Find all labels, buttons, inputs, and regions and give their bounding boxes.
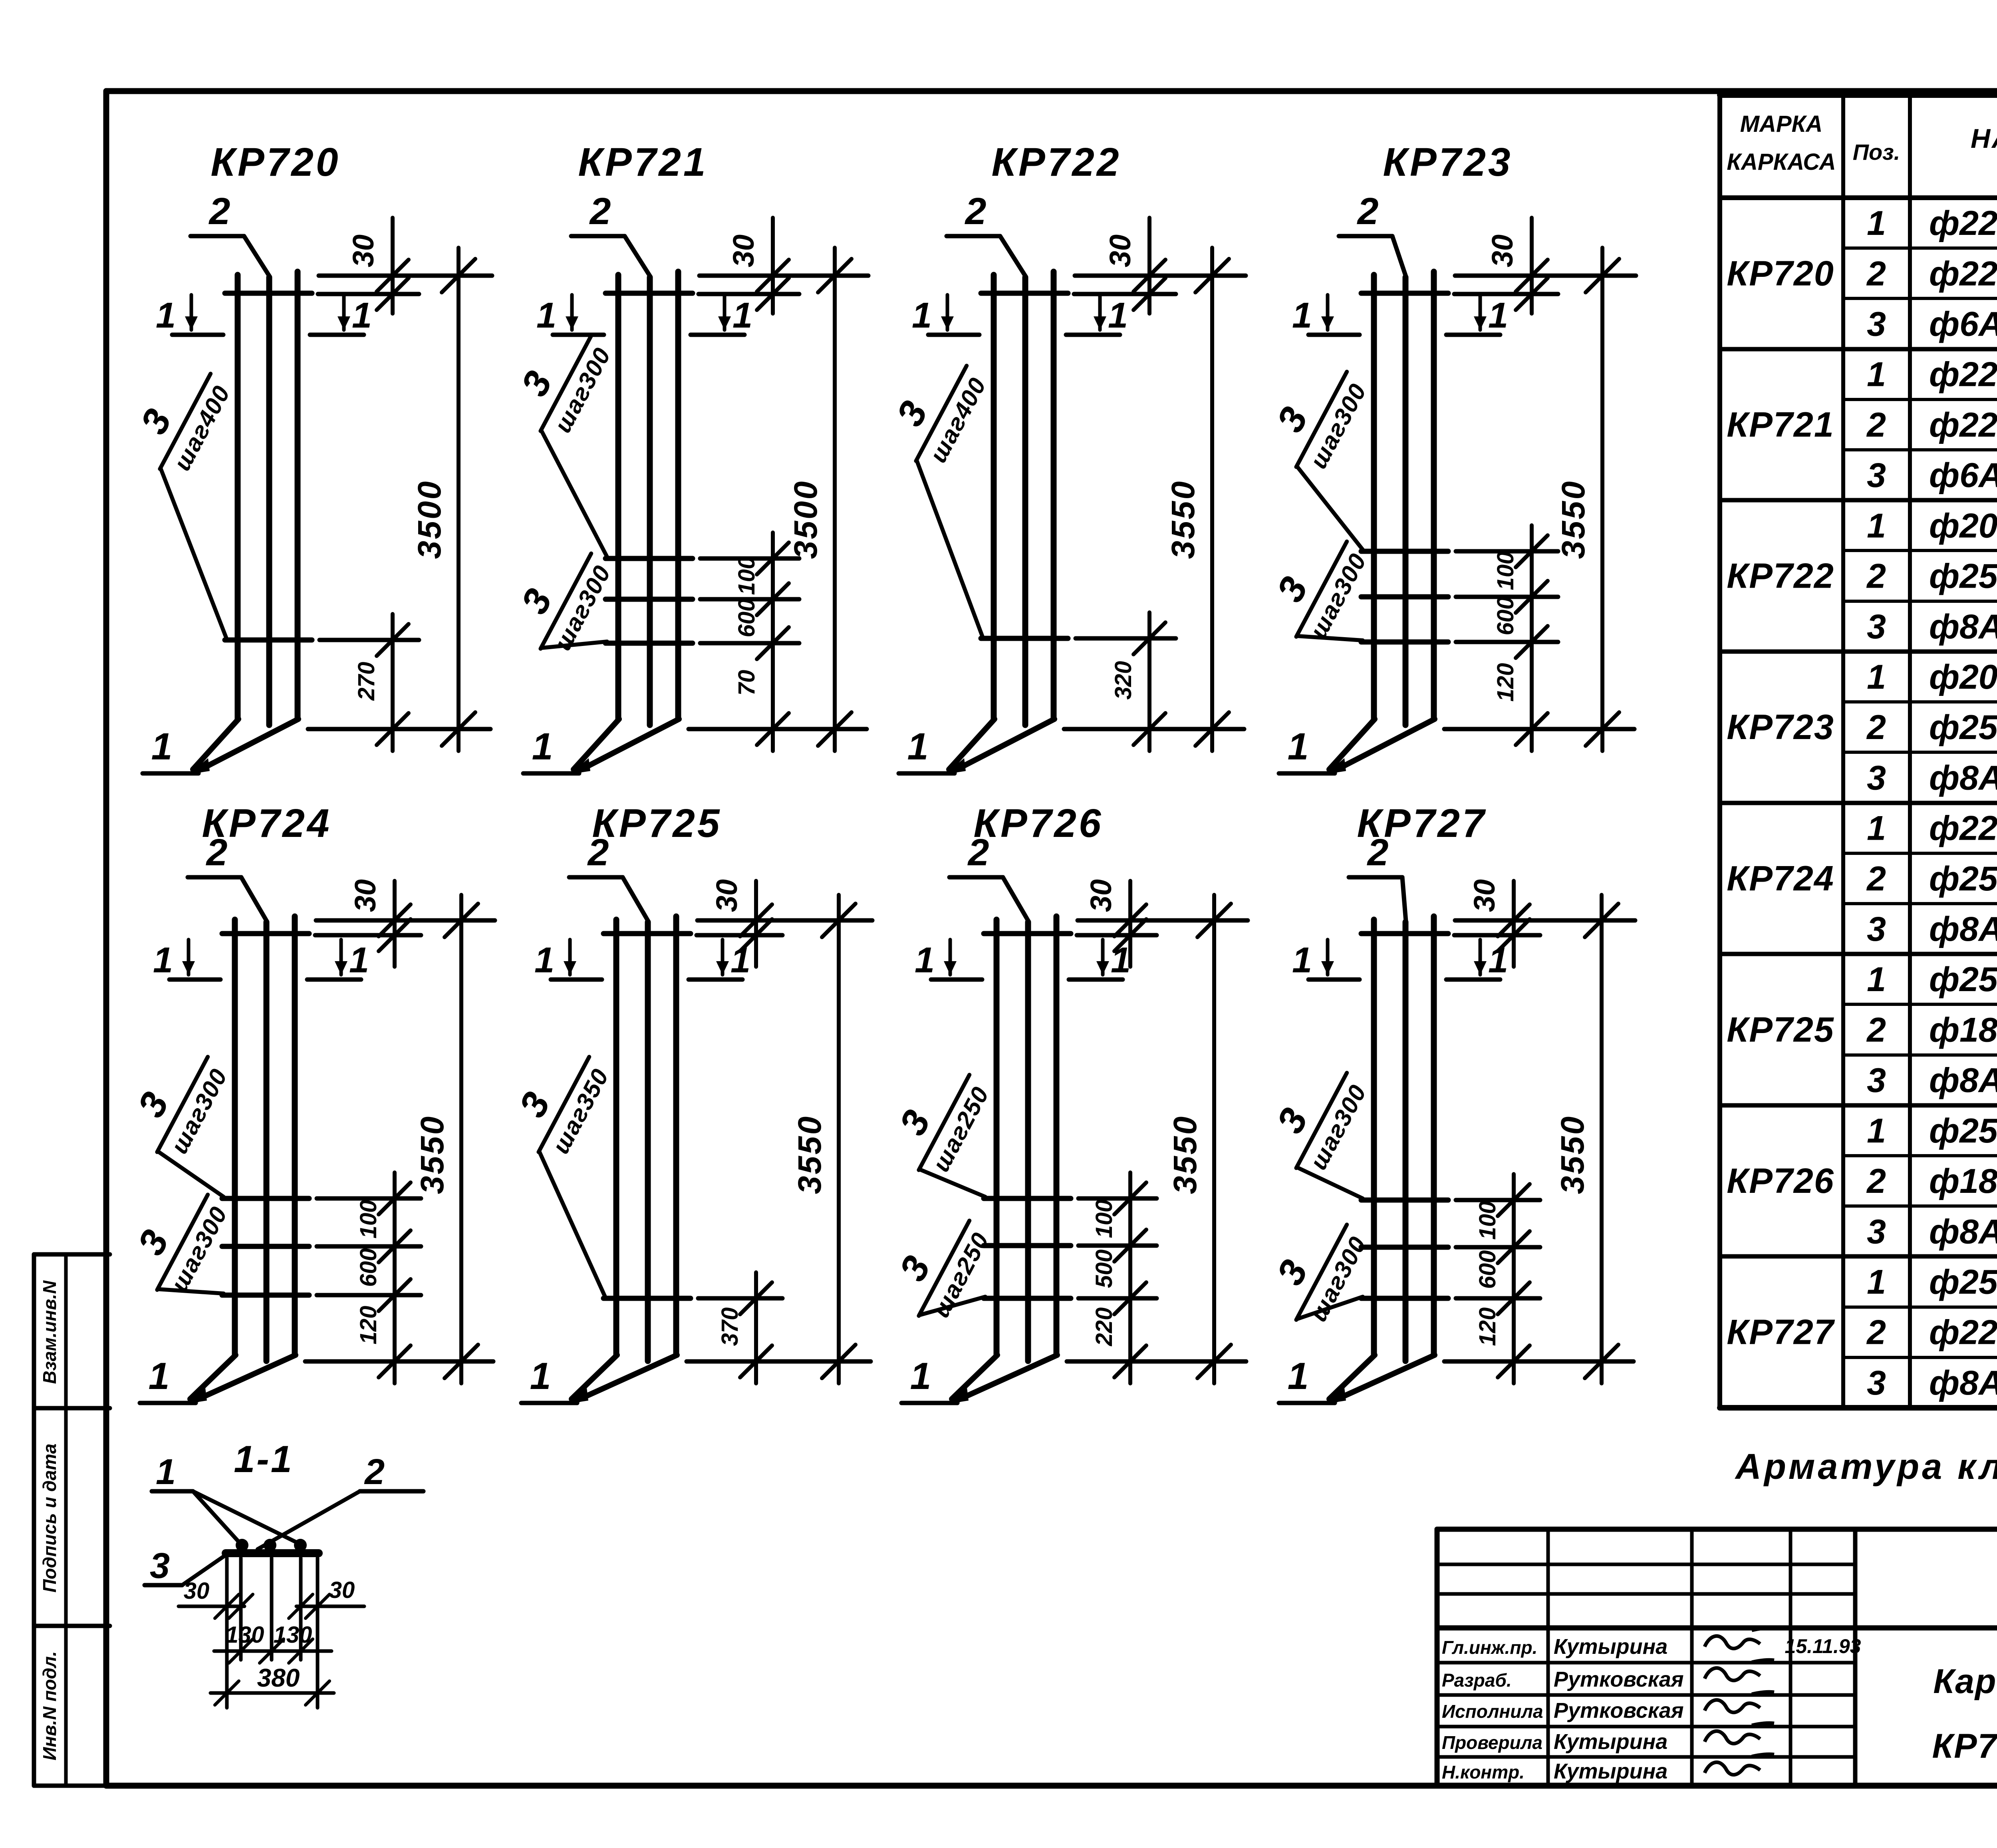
bar 2 middle longitudinal — [1403, 922, 1409, 1361]
svg-text:КР723: КР723 — [1383, 140, 1513, 185]
section cut mark 1 right — [1446, 333, 1500, 337]
bar 1 right longitudinal — [292, 916, 298, 1355]
svg-text:100: 100 — [1091, 1200, 1117, 1238]
section detail 1-1 — [145, 1438, 423, 1708]
bar 1 right longitudinal — [1431, 916, 1437, 1355]
leader label 3 шаг300 — [116, 1173, 235, 1305]
leader label 2 (top bar) — [1339, 234, 1392, 238]
svg-text:500: 500 — [1091, 1250, 1117, 1288]
svg-text:320: 320 — [1110, 661, 1136, 700]
svg-text:Подпись и дата: Подпись и дата — [39, 1444, 60, 1593]
svg-text:1: 1 — [1292, 940, 1312, 980]
svg-text:МАРКА: МАРКА — [1740, 111, 1822, 137]
specification table — [1720, 95, 1997, 1408]
svg-text:ф20АIII l=3550: ф20АIII l=3550 — [1929, 658, 1997, 696]
svg-text:100: 100 — [734, 556, 760, 595]
svg-text:Инв.N подл.: Инв.N подл. — [39, 1651, 60, 1760]
svg-text:ф8АI l=380: ф8АI l=380 — [1929, 1212, 1997, 1251]
rebar cage diagram КР726 — [877, 801, 1248, 1404]
svg-text:1: 1 — [1292, 296, 1312, 336]
svg-text:1: 1 — [149, 1355, 170, 1397]
svg-text:1: 1 — [1867, 658, 1886, 696]
svg-text:ф22АIII l=3500: ф22АIII l=3500 — [1929, 204, 1997, 242]
extension lines top — [699, 274, 868, 278]
bottom hook bends of bars — [952, 1355, 997, 1399]
svg-text:КР725: КР725 — [592, 801, 722, 846]
svg-text:1-1: 1-1 — [234, 1438, 293, 1480]
svg-text:3: 3 — [1867, 1364, 1886, 1402]
svg-text:ф25АIII l=3550: ф25АIII l=3550 — [1929, 1263, 1997, 1301]
svg-text:2: 2 — [1866, 254, 1886, 293]
svg-text:130: 130 — [274, 1622, 312, 1648]
bottom hook bends of bars — [193, 719, 238, 769]
extension lines top — [1075, 274, 1246, 278]
rebar cage diagram КР720 — [119, 140, 492, 774]
svg-text:ф22АIII l=3500: ф22АIII l=3500 — [1929, 356, 1997, 394]
bar 2 middle longitudinal — [645, 922, 651, 1361]
svg-text:1: 1 — [1867, 356, 1886, 394]
svg-text:270: 270 — [353, 662, 379, 701]
bar 2 middle longitudinal — [1025, 922, 1031, 1361]
svg-text:Кутырина: Кутырина — [1554, 1730, 1667, 1754]
extension line bottom — [1064, 727, 1244, 731]
svg-text:Рутковская: Рутковская — [1554, 1699, 1684, 1723]
svg-text:30: 30 — [329, 1577, 355, 1603]
svg-text:1: 1 — [1867, 204, 1886, 242]
svg-text:120: 120 — [1475, 1308, 1501, 1346]
svg-text:1: 1 — [1867, 1112, 1886, 1150]
section cut mark 1 right — [691, 333, 744, 337]
tie 3 lower crossbar 1 — [603, 1296, 691, 1301]
tie 3 lower crossbar 1 — [1361, 549, 1448, 554]
svg-text:2: 2 — [589, 190, 611, 232]
title block frame — [1437, 1529, 1997, 1786]
svg-text:600: 600 — [355, 1248, 381, 1287]
lower dimension group — [1147, 612, 1151, 751]
svg-text:100: 100 — [1493, 552, 1519, 590]
svg-text:130: 130 — [226, 1622, 264, 1648]
svg-text:2: 2 — [1357, 190, 1379, 232]
svg-text:КР721: КР721 — [578, 140, 708, 185]
svg-text:ф8АI l=380: ф8АI l=380 — [1929, 608, 1997, 646]
svg-text:КР726: КР726 — [1727, 1161, 1834, 1200]
svg-text:Каркас плоский: Каркас плоский — [1933, 1662, 1997, 1701]
leader label 3 шаг400 — [875, 344, 994, 476]
bar 1 right longitudinal — [1431, 272, 1437, 719]
svg-text:1: 1 — [151, 725, 173, 768]
lower dimension group — [391, 614, 395, 751]
tie 3 lower crossbar 2 — [1361, 1245, 1448, 1250]
dimension 30 top — [1512, 881, 1516, 967]
svg-text:3550: 3550 — [1555, 480, 1592, 559]
tie 3 lower crossbar 1 — [222, 1196, 309, 1201]
svg-text:2: 2 — [967, 831, 989, 874]
svg-text:ф6АI l=380: ф6АI l=380 — [1929, 305, 1997, 344]
bar 1 left longitudinal — [232, 920, 238, 1355]
bar 1 left longitudinal — [1371, 275, 1377, 719]
tie 3 lower crossbar 3 — [1361, 640, 1448, 645]
extension line bottom — [689, 727, 867, 731]
bottom hook bends of bars — [1329, 1355, 1375, 1399]
section dimension 380 — [210, 1691, 334, 1695]
leader label 1 (bottom bars) — [521, 1401, 577, 1405]
section leader 3 — [145, 1583, 182, 1588]
table group КР726 — [1727, 1112, 1997, 1251]
svg-text:ф8АI l=380: ф8АI l=380 — [1929, 1061, 1997, 1100]
signature rows — [1442, 1635, 1861, 1783]
svg-text:2: 2 — [587, 831, 609, 874]
leader label 2 (top bar) — [947, 234, 1000, 238]
svg-text:КР725: КР725 — [1727, 1009, 1834, 1049]
bar 2 middle longitudinal — [1022, 277, 1028, 725]
section leader 2 — [360, 1489, 423, 1494]
svg-text:3550: 3550 — [414, 1115, 451, 1194]
section dimension 30 right — [296, 1605, 364, 1608]
svg-text:3: 3 — [1867, 1212, 1886, 1251]
tie 3 lower crossbar 2 — [1361, 594, 1448, 600]
leader label 2 (top bar) — [1349, 875, 1402, 880]
svg-text:1: 1 — [1867, 960, 1886, 999]
tie 3 top crossbar — [605, 291, 693, 296]
bar 1 right longitudinal — [295, 272, 301, 719]
leader label 3 шаг300 — [1255, 1203, 1374, 1335]
dimension 3500 overall — [457, 248, 461, 751]
section cut mark 1 left — [553, 333, 604, 337]
lower dimension group — [1512, 1174, 1516, 1383]
svg-text:30: 30 — [184, 1578, 210, 1604]
svg-text:3: 3 — [150, 1546, 170, 1586]
svg-text:2: 2 — [1866, 1162, 1886, 1200]
dimension 30 top — [1128, 881, 1132, 967]
leader label 1 (bottom bars) — [1279, 771, 1335, 776]
tie 3 lower crossbar 1 — [225, 638, 312, 643]
svg-text:ф25АIII l=3550: ф25АIII l=3550 — [1929, 960, 1997, 999]
svg-text:120: 120 — [1493, 663, 1519, 702]
svg-text:3: 3 — [1867, 910, 1886, 948]
svg-text:2: 2 — [965, 190, 987, 232]
svg-text:600: 600 — [734, 599, 760, 638]
extension line bottom — [1067, 1359, 1246, 1364]
bar 1 right longitudinal — [1051, 272, 1057, 719]
svg-text:120: 120 — [355, 1306, 381, 1345]
svg-text:1: 1 — [349, 940, 369, 980]
dimension 30 top — [391, 218, 395, 314]
svg-text:220: 220 — [1091, 1308, 1117, 1347]
section cut mark 1 left — [1308, 978, 1360, 982]
svg-text:1: 1 — [732, 296, 752, 336]
svg-text:3550: 3550 — [1167, 1115, 1203, 1194]
svg-text:2: 2 — [1866, 557, 1886, 596]
extension lines top — [697, 918, 872, 923]
leader label 2 (top bar) — [188, 875, 241, 880]
dimension 3550 overall — [1210, 248, 1214, 751]
dimension 30 top — [393, 881, 397, 967]
leader label 1 (bottom bars) — [899, 771, 955, 776]
svg-text:Кутырина: Кутырина — [1554, 1635, 1667, 1659]
svg-text:100: 100 — [355, 1200, 381, 1239]
lower dimension group — [393, 1172, 397, 1383]
section cut mark 1 left — [928, 333, 979, 337]
svg-text:1: 1 — [1288, 725, 1309, 768]
tie 3 top crossbar — [222, 931, 309, 936]
svg-text:1: 1 — [915, 940, 935, 980]
svg-text:2: 2 — [1866, 708, 1886, 747]
svg-text:380: 380 — [257, 1663, 300, 1692]
svg-text:КР720: КР720 — [1727, 253, 1834, 293]
svg-text:30: 30 — [1084, 879, 1118, 912]
svg-text:ф25АIII l=3550: ф25АIII l=3550 — [1929, 860, 1997, 898]
leader label 3 шаг300 — [499, 532, 619, 664]
left stamp strip boxes — [34, 1254, 110, 1786]
svg-text:1: 1 — [1867, 507, 1886, 545]
svg-text:КР720...КР727: КР720...КР727 — [1932, 1727, 1997, 1765]
svg-text:Н.контр.: Н.контр. — [1442, 1762, 1525, 1782]
svg-text:ф25АIII l=3550: ф25АIII l=3550 — [1929, 557, 1997, 596]
svg-text:1: 1 — [536, 296, 556, 336]
lower dimension group — [754, 1272, 758, 1383]
extension line bottom — [305, 1359, 493, 1364]
leader label 1 (bottom bars) — [523, 771, 579, 776]
table group КР723 — [1727, 658, 1997, 797]
leader label 3 шаг250 — [877, 1053, 997, 1185]
svg-text:Проверила: Проверила — [1442, 1732, 1542, 1753]
dimension 3550 overall — [459, 895, 463, 1383]
svg-text:1: 1 — [1288, 1355, 1309, 1397]
svg-text:ф18АIII l=3550: ф18АIII l=3550 — [1929, 1162, 1997, 1200]
stamp text Взам.инв.№ — [39, 1280, 60, 1384]
svg-text:Гл.инж.пр.: Гл.инж.пр. — [1442, 1637, 1537, 1658]
svg-text:ф25АIII l=3550: ф25АIII l=3550 — [1929, 708, 1997, 747]
section dimension extension lines — [225, 1558, 229, 1708]
stamp text Инв.№ подл. — [39, 1651, 60, 1760]
svg-text:ф8АI l=380: ф8АI l=380 — [1929, 910, 1997, 948]
svg-text:600: 600 — [1493, 597, 1519, 636]
svg-text:30: 30 — [727, 234, 760, 267]
svg-text:70: 70 — [734, 670, 760, 696]
lower dimension group — [1128, 1172, 1132, 1383]
bar 1 left longitudinal — [994, 920, 1000, 1355]
leader label 1 (bottom bars) — [140, 1401, 196, 1405]
dimension 3550 overall — [1600, 248, 1604, 751]
svg-text:Разраб.: Разраб. — [1442, 1670, 1512, 1691]
leader label 2 (top bar) — [571, 234, 625, 238]
bar 1 right longitudinal — [675, 272, 681, 719]
extension line bottom — [1444, 1359, 1634, 1364]
svg-text:КР722: КР722 — [1727, 556, 1834, 596]
svg-text:ф25АIII l=3550: ф25АIII l=3550 — [1929, 1112, 1997, 1150]
section cut mark 1 right — [1446, 978, 1500, 982]
leader label 3 шаг300 — [116, 1035, 235, 1167]
svg-text:КР727: КР727 — [1727, 1312, 1835, 1352]
svg-text:30: 30 — [347, 234, 380, 267]
table group КР724 — [1727, 809, 1997, 948]
tie 3 top crossbar — [603, 931, 691, 936]
svg-text:ф22АIII l=3500: ф22АIII l=3500 — [1929, 254, 1997, 293]
dimension 30 top — [754, 881, 758, 967]
svg-text:1: 1 — [1488, 296, 1508, 336]
svg-text:1: 1 — [534, 940, 554, 980]
dimension 3550 overall — [1212, 895, 1216, 1383]
bar 1 right longitudinal — [1054, 916, 1060, 1355]
tie 3 lower crossbar 3 — [222, 1293, 309, 1298]
leader label 3 шаг300 — [1255, 350, 1374, 482]
lower dimension group — [771, 533, 775, 751]
svg-text:3: 3 — [1867, 608, 1886, 646]
svg-text:КР724: КР724 — [1727, 858, 1834, 898]
svg-text:30: 30 — [1486, 234, 1519, 267]
bar 2 middle longitudinal — [264, 922, 270, 1361]
bar 2 middle longitudinal — [1403, 277, 1409, 725]
leader label 2 (top bar) — [949, 875, 1003, 880]
svg-text:Арматура класса А-III и А-: Арматура класса А-III и А-I по ГОСТ5781-… — [1735, 1447, 1997, 1487]
extension line bottom — [1444, 727, 1634, 731]
svg-text:1: 1 — [907, 725, 929, 768]
svg-text:3: 3 — [1867, 456, 1886, 495]
section cut mark 1 left — [169, 978, 220, 982]
tie 3 lower crossbar 1 — [984, 1196, 1071, 1201]
leader label 3 шаг350 — [497, 1035, 617, 1167]
svg-text:30: 30 — [349, 879, 382, 912]
rebar cage diagram КР727 — [1255, 801, 1635, 1404]
table group КР727 — [1727, 1263, 1997, 1402]
dimension 3500 overall — [833, 248, 837, 751]
svg-text:3550: 3550 — [1554, 1115, 1591, 1194]
svg-text:КР721: КР721 — [1727, 405, 1834, 444]
svg-text:100: 100 — [1475, 1201, 1501, 1240]
section leader 1 — [152, 1489, 193, 1494]
svg-text:2: 2 — [1866, 1011, 1886, 1049]
extension lines top — [319, 274, 492, 278]
extension lines top — [316, 918, 495, 923]
rebar cage diagram КР724 — [116, 801, 495, 1404]
svg-text:3500: 3500 — [788, 480, 824, 559]
section cut mark 1 right — [310, 333, 364, 337]
leader label 3 шаг300 — [1255, 520, 1374, 652]
svg-text:3: 3 — [1867, 305, 1886, 344]
leader label 3 шаг400 — [119, 352, 238, 484]
svg-text:2: 2 — [364, 1452, 385, 1492]
rebar dot 3 — [294, 1539, 307, 1552]
leader label 2 (top bar) — [191, 234, 244, 238]
tie 3 top crossbar — [1361, 931, 1448, 936]
svg-text:ф20АIII l=3550: ф20АIII l=3550 — [1929, 507, 1997, 545]
svg-text:3500: 3500 — [411, 480, 448, 559]
tie 3 top crossbar — [981, 291, 1068, 296]
section cut mark 1 right — [1069, 978, 1123, 982]
section bar (top plate) — [226, 1549, 319, 1557]
tie 3 lower crossbar 1 — [981, 636, 1068, 641]
svg-text:КР726: КР726 — [973, 801, 1103, 846]
dimension 30 top — [1530, 218, 1534, 314]
dimension 3550 overall — [1600, 895, 1604, 1383]
leader label 3 шаг300 — [1255, 1051, 1374, 1183]
bar 1 right longitudinal — [673, 916, 679, 1355]
section cut mark 1 right — [1066, 333, 1120, 337]
svg-text:3550: 3550 — [1165, 480, 1201, 559]
bar 1 left longitudinal — [1371, 920, 1377, 1355]
svg-text:1: 1 — [530, 1355, 551, 1397]
tie 3 top crossbar — [984, 931, 1071, 936]
svg-text:КАРКАСА: КАРКАСА — [1727, 149, 1836, 175]
extension line bottom — [687, 1359, 871, 1364]
section cut mark 1 left — [1308, 333, 1360, 337]
svg-text:370: 370 — [717, 1308, 743, 1346]
bottom hook bends of bars — [949, 719, 995, 769]
leader label 2 (top bar) — [569, 875, 623, 880]
table header texts — [1727, 111, 1997, 193]
dimension 3550 overall — [837, 895, 841, 1383]
svg-text:2: 2 — [206, 831, 228, 874]
svg-text:600: 600 — [1475, 1250, 1501, 1289]
table group КР722 — [1727, 507, 1997, 646]
section cut mark 1 left — [551, 978, 602, 982]
svg-text:КР723: КР723 — [1727, 707, 1834, 747]
svg-text:НАИМЕНОВАНИЕ: НАИМЕНОВАНИЕ — [1971, 123, 1997, 154]
tie 3 lower crossbar 2 — [222, 1244, 309, 1249]
tie 3 lower crossbar 2 — [984, 1243, 1071, 1248]
extension line bottom — [308, 727, 490, 731]
tie 3 lower crossbar 2 — [605, 597, 693, 602]
svg-text:3550: 3550 — [792, 1115, 828, 1194]
svg-text:2: 2 — [208, 190, 230, 232]
leader label 1 (bottom bars) — [143, 771, 199, 776]
bar 1 left longitudinal — [613, 920, 619, 1355]
bottom hook bends of bars — [1329, 719, 1375, 769]
tie 3 lower crossbar 1 — [605, 556, 693, 561]
table group КР725 — [1727, 960, 1997, 1099]
svg-text:2: 2 — [1866, 1313, 1886, 1352]
svg-text:КР720: КР720 — [210, 140, 340, 185]
svg-text:1: 1 — [1867, 1263, 1886, 1301]
svg-text:30: 30 — [1468, 879, 1501, 912]
extension lines top — [1455, 918, 1635, 923]
section cut mark 1 left — [172, 333, 223, 337]
bar 1 left longitudinal — [235, 275, 241, 719]
table group КР721 — [1727, 356, 1997, 495]
bar 1 left longitudinal — [615, 275, 621, 719]
svg-text:3: 3 — [1867, 1061, 1886, 1100]
svg-text:ф22АIII l=3500: ф22АIII l=3500 — [1929, 406, 1997, 444]
leader label 1 (bottom bars) — [901, 1401, 957, 1405]
svg-text:1: 1 — [910, 1355, 931, 1397]
svg-text:1: 1 — [1108, 296, 1128, 336]
svg-text:ф18АIII l=3550: ф18АIII l=3550 — [1929, 1011, 1997, 1049]
tie 3 top crossbar — [225, 291, 312, 296]
svg-text:Рутковская: Рутковская — [1554, 1667, 1684, 1691]
rebar cage diagram КР725 — [497, 801, 872, 1404]
dimension 30 top — [1147, 218, 1151, 314]
dimension 30 top — [771, 218, 775, 314]
rebar cage diagram КР723 — [1255, 140, 1636, 774]
svg-text:ф22АIII l=3550: ф22АIII l=3550 — [1929, 1313, 1997, 1352]
svg-text:ф8АI l=380: ф8АI l=380 — [1929, 759, 1997, 797]
bar 2 middle longitudinal — [266, 277, 272, 725]
svg-text:15.11.93: 15.11.93 — [1785, 1635, 1861, 1657]
extension lines top — [1455, 274, 1636, 278]
svg-text:Поз.: Поз. — [1853, 139, 1900, 165]
svg-text:3: 3 — [1867, 759, 1886, 797]
leader label 3 шаг250 — [877, 1199, 997, 1331]
tie 3 lower crossbar 1 — [1361, 1198, 1448, 1203]
table group КР720 — [1727, 204, 1997, 343]
section dimension 130 130 — [214, 1649, 332, 1653]
bottom hook bends of bars — [574, 719, 619, 769]
leader label 3 шаг300 — [499, 314, 619, 446]
svg-text:1: 1 — [532, 725, 553, 768]
svg-text:30: 30 — [1104, 234, 1137, 267]
svg-text:1: 1 — [1867, 809, 1886, 848]
svg-text:Исполнила: Исполнила — [1442, 1701, 1543, 1722]
